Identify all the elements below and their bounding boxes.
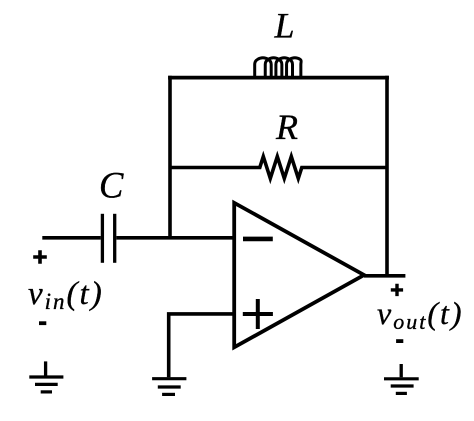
ground middle bar2 [158, 385, 181, 388]
inductor L1 arch 1 [255, 58, 272, 79]
label plus vout [391, 284, 403, 296]
svg-text:vin(t): vin(t) [28, 276, 104, 314]
wire feedback right vertical [385, 76, 389, 276]
resistor R1 zigzag on middle wire [170, 157, 387, 179]
ground right bar1 [384, 377, 419, 380]
op-amp plus input sign [243, 299, 273, 329]
capacitor C1 left plate [101, 214, 104, 263]
ground right bar2 [391, 384, 414, 387]
inductor L1 arch 3 [276, 58, 293, 79]
ground right stem [400, 364, 403, 377]
ground left stem [44, 361, 47, 377]
capacitor C1 right plate [113, 214, 116, 263]
op-amp U1 triangle [234, 203, 364, 347]
wire feedback left vertical [168, 76, 172, 238]
wire input left segment [42, 236, 101, 240]
svg-text:C: C [99, 165, 124, 206]
op-amp minus input sign [243, 237, 273, 242]
inductor L1 arch 4 [287, 58, 302, 79]
label minus vin [39, 321, 46, 325]
ground left bar2 [35, 383, 58, 386]
label minus vout [396, 339, 403, 343]
wire capacitor to op-amp minus input [116, 236, 234, 240]
inductor L1 arch 2 [265, 58, 282, 79]
ground right bar3 [396, 392, 407, 395]
svg-text:L: L [274, 5, 295, 45]
label plus vin [33, 250, 47, 263]
wire op-amp plus input [169, 314, 235, 377]
wire output [364, 274, 405, 278]
ground middle bar3 [162, 393, 175, 396]
ground middle bar1 [152, 377, 186, 380]
ground left bar1 [29, 375, 63, 378]
svg-text:vout(t): vout(t) [377, 295, 464, 334]
wire top feedback with inductor [168, 76, 389, 80]
ground left bar3 [41, 390, 52, 393]
svg-text:R: R [275, 107, 298, 147]
